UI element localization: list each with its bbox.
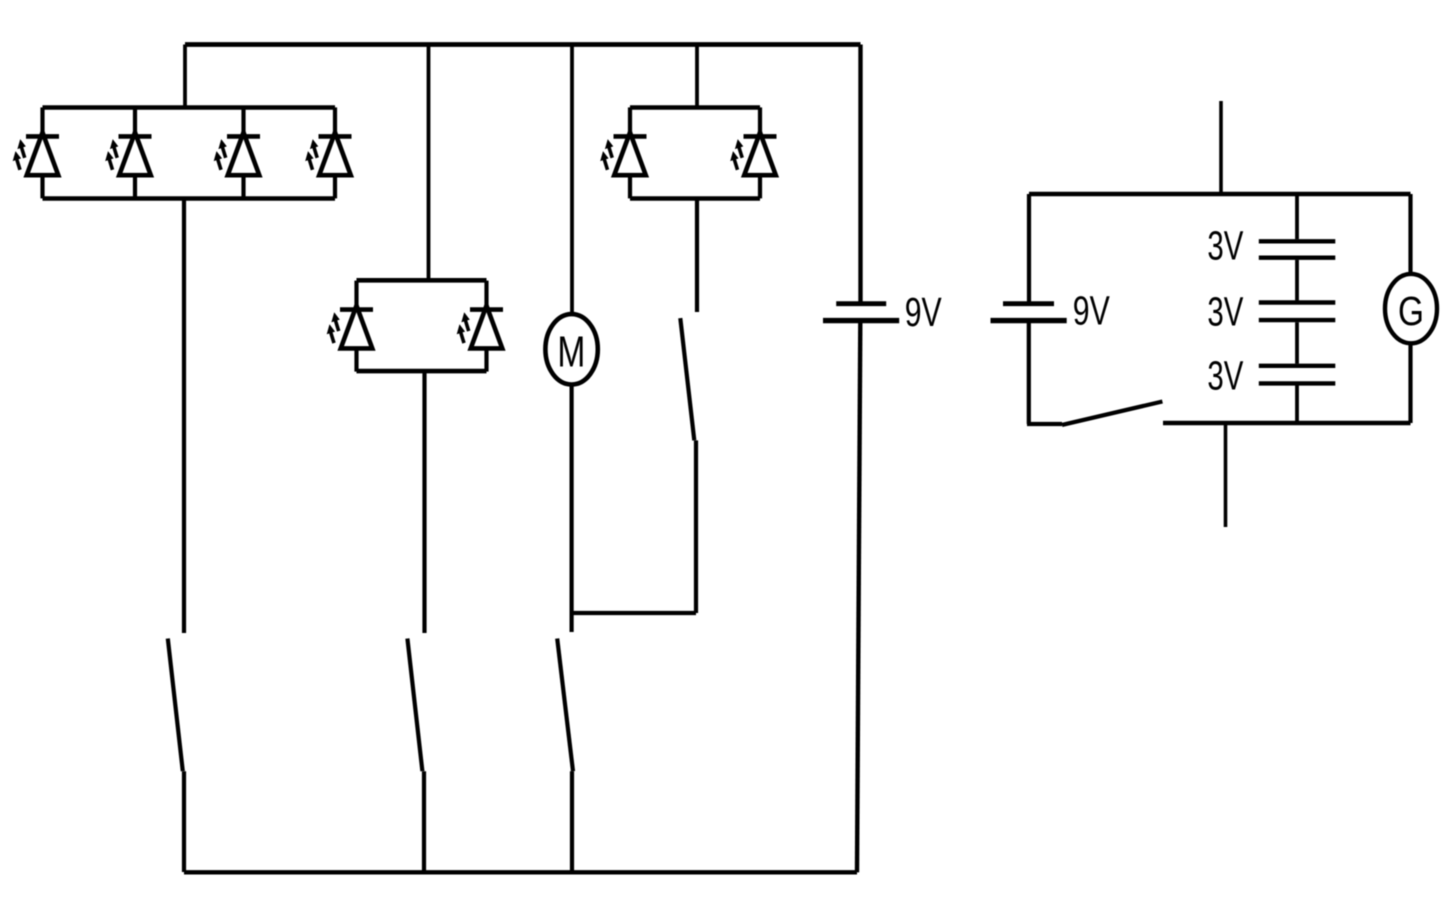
LED D4 <box>305 107 351 198</box>
capacitor C2 top plate <box>1259 300 1336 304</box>
switch S5 blade <box>1062 402 1162 425</box>
capacitor C3 top plate <box>1259 364 1336 368</box>
wire: LED group 3 bottom rail <box>630 196 760 201</box>
wire: branch 4 join to motor branch <box>571 611 696 615</box>
wire: capacitor branch top <box>1295 194 1299 239</box>
battery BT2 negative plate <box>991 318 1067 323</box>
wire: top stub <box>1219 101 1223 194</box>
switch S4 blade <box>680 318 694 440</box>
svg-text:M: M <box>557 328 585 377</box>
switch S2 blade <box>407 639 422 772</box>
wire: bottom rail <box>1163 421 1411 426</box>
battery BT1 negative plate <box>823 318 899 323</box>
wire: bottom stub <box>1224 423 1228 527</box>
switch S3 blade <box>557 639 573 772</box>
wire: capacitor branch bottom <box>1295 386 1299 424</box>
motor M1 circle <box>545 314 597 384</box>
wire: right side below battery <box>857 323 860 873</box>
svg-text:3V: 3V <box>1207 223 1243 269</box>
LED D8 <box>730 107 776 198</box>
wire: LED group 1 top rail <box>43 105 336 110</box>
wire: LED group 2 top rail <box>357 278 487 283</box>
wire: branch 2 down to switch <box>422 371 426 633</box>
capacitor C1 top plate <box>1259 239 1336 243</box>
battery BT2 positive plate <box>1003 301 1054 306</box>
generator G1 circle <box>1385 274 1437 343</box>
LED D7 <box>600 107 646 198</box>
node C: branch 4 feed from top bus <box>695 45 699 108</box>
capacitor C2 bottom plate <box>1259 318 1336 322</box>
LED D3 <box>214 107 260 198</box>
wire: right branch top <box>1408 194 1412 275</box>
wire: between C2 and C3 <box>1295 322 1299 364</box>
wire: branch 1 below switch <box>182 771 186 872</box>
wire: branch 2 below switch <box>422 771 426 872</box>
wire: right branch bottom <box>1408 343 1412 423</box>
battery BT1 positive plate <box>836 301 886 306</box>
LED D2 <box>105 107 151 198</box>
node A: branch 1 feed from top bus <box>183 45 187 108</box>
wire: LED group 3 top rail <box>630 105 760 110</box>
wire: branch 4 below switch <box>694 440 698 613</box>
LED D1 <box>13 107 59 198</box>
wire: top horizontal bus <box>185 42 861 47</box>
wire: branch 1 down to switch <box>182 199 186 634</box>
node B: branch 2 feed from top bus <box>427 45 431 281</box>
wire: LED group 1 bottom rail <box>43 196 336 201</box>
svg-text:G: G <box>1398 288 1424 334</box>
svg-text:3V: 3V <box>1207 353 1243 399</box>
wire: between C1 and C2 <box>1295 260 1299 301</box>
svg-text:3V: 3V <box>1207 289 1243 335</box>
wire: top rail <box>1029 192 1411 197</box>
LED D6 <box>457 281 503 372</box>
wire: left branch below battery <box>1027 323 1031 424</box>
wire: bottom horizontal bus <box>184 870 857 874</box>
capacitor C1 bottom plate <box>1259 256 1336 260</box>
wire: motor branch feed <box>570 45 574 315</box>
wire: switch stub <box>1027 422 1062 426</box>
wire: motor branch down to switch <box>569 385 573 633</box>
wire: motor branch below switch <box>570 771 574 872</box>
switch S1 blade <box>168 639 183 772</box>
wire: left branch down <box>1027 194 1031 302</box>
capacitor C3 bottom plate <box>1259 381 1336 385</box>
wire: right side down to battery <box>858 45 862 302</box>
svg-text:9V: 9V <box>905 289 942 335</box>
svg-text:9V: 9V <box>1073 288 1110 334</box>
LED D5 <box>327 281 373 372</box>
wire: LED group 2 bottom rail <box>357 369 487 374</box>
wire: branch 4 down to switch <box>695 199 699 313</box>
